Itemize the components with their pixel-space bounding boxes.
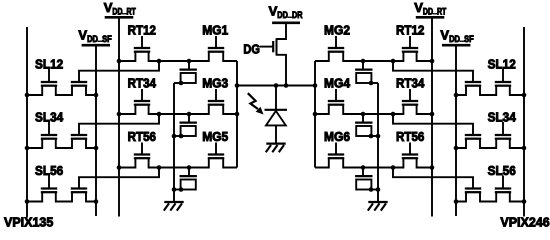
svg-text:MG5: MG5 <box>202 129 228 144</box>
svg-text:DD_RT: DD_RT <box>112 5 136 16</box>
svg-text:DD_SF: DD_SF <box>449 32 474 44</box>
svg-text:RT34: RT34 <box>396 75 425 90</box>
svg-text:RT12: RT12 <box>396 22 424 37</box>
svg-text:V: V <box>269 4 278 19</box>
svg-text:MG4: MG4 <box>324 75 351 90</box>
svg-text:RT56: RT56 <box>128 129 156 144</box>
svg-text:SL34: SL34 <box>488 110 517 125</box>
svg-text:VPIX135: VPIX135 <box>4 215 53 230</box>
svg-text:SL12: SL12 <box>488 57 516 72</box>
svg-text:DD_DR: DD_DR <box>277 9 303 21</box>
svg-text:V: V <box>414 0 423 15</box>
svg-text:SL12: SL12 <box>35 57 63 72</box>
svg-text:SL56: SL56 <box>35 163 63 178</box>
svg-text:MG6: MG6 <box>324 129 350 144</box>
svg-text:V: V <box>78 27 87 42</box>
svg-text:RT56: RT56 <box>396 129 424 144</box>
svg-text:DD_SF: DD_SF <box>87 32 112 44</box>
svg-text:DD_RT: DD_RT <box>423 5 447 16</box>
svg-text:V: V <box>104 0 113 15</box>
svg-text:V: V <box>440 27 449 42</box>
svg-text:DG: DG <box>243 42 260 57</box>
svg-text:MG3: MG3 <box>202 75 228 90</box>
svg-text:VPIX246: VPIX246 <box>500 215 549 230</box>
svg-text:SL56: SL56 <box>488 163 516 178</box>
svg-text:MG1: MG1 <box>202 22 228 37</box>
svg-text:SL34: SL34 <box>35 110 64 125</box>
svg-text:RT12: RT12 <box>128 22 156 37</box>
svg-text:RT34: RT34 <box>128 75 157 90</box>
svg-text:MG2: MG2 <box>324 22 350 37</box>
